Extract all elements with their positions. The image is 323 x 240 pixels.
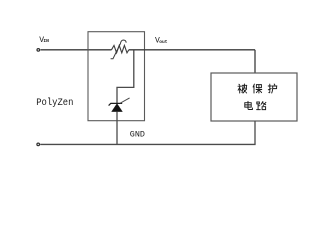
device box PolyZen outline [88,32,145,121]
label protected circuit line2 (电路) [245,101,266,109]
box protected circuit [211,73,297,121]
zener diode D1 cathode wing [120,98,129,103]
char 护 [268,84,277,93]
char 路 [257,102,266,110]
wire resistor to diode (down, left, down) [117,50,134,103]
label protected circuit line1 (被保护) [238,84,277,93]
node GND terminal [37,143,40,146]
resistor PPTC zigzag [112,45,129,52]
char 保 [253,84,262,93]
wire protected box bottom to ground rail [254,121,256,144]
zener diode D1 cathode bar [109,103,123,105]
svg-text:GND: GND [130,130,145,140]
wire top rail left [40,49,111,51]
svg-text:PolyZen: PolyZen [36,97,73,109]
wire diode anode to ground rail [116,112,118,145]
wire ground rail [40,143,255,145]
char 电 [245,101,253,109]
wire top rail right [129,49,255,51]
zener diode D1 triangle [112,104,123,112]
node Vin terminal [37,49,40,52]
svg-text:out: out [159,39,168,45]
svg-text:IN: IN [43,38,49,44]
char 被 [238,84,247,93]
wire corner down to protected box [254,50,256,73]
resistor PPTC strike (thermistor mark) [111,40,127,59]
